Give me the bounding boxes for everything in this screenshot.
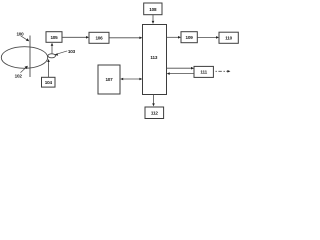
svg-text:107: 107 [105,77,113,82]
svg-text:112: 112 [151,111,158,116]
tall box 113 [143,25,167,95]
dashed output arrow from 111 [216,70,229,72]
line 113 to 109 [167,36,180,38]
arrow 113 to 112 [153,95,155,105]
spindle axis line [29,36,31,78]
arrow 111 to 113 [168,73,194,75]
box 112 [145,107,164,119]
svg-text:106: 106 [95,36,103,41]
leader arrow to disc edge [21,68,27,73]
box 104 [42,77,56,87]
leader line to label 103 [55,51,67,55]
svg-text:102: 102 [15,73,23,78]
box 107 [98,65,120,94]
box 105 [46,32,62,43]
svg-text:111: 111 [200,70,207,75]
box 108 [144,3,162,15]
arrow 108 to 113 [152,15,154,23]
box 110 [219,32,238,43]
svg-text:103: 103 [68,49,76,54]
leader arrow to axis [21,36,28,40]
svg-text:113: 113 [150,55,157,60]
svg-text:100: 100 [16,32,24,37]
svg-text:104: 104 [45,80,53,85]
svg-text:110: 110 [225,35,232,40]
svg-text:105: 105 [50,35,58,40]
arrow lens to box 105 [51,45,53,54]
svg-text:109: 109 [186,35,194,40]
disc 102 (ellipse) [1,47,47,69]
svg-text:108: 108 [149,7,157,12]
box 109 [181,32,197,43]
double arrow 107 - 113 [122,78,141,80]
lens 103 (small ellipse) [48,54,56,58]
arrow 113 to 111 [167,67,193,69]
arrow 106 to 113 [109,37,141,39]
box 106 [89,32,109,43]
arrow 105 to 106 [62,36,87,38]
arrow 109 to 110 [197,36,217,38]
arrow 104 to lens [48,61,50,78]
box 111 [194,66,213,77]
